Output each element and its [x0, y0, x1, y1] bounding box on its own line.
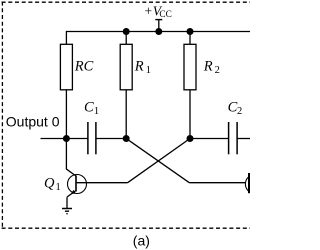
wire C1 to R1 node: [96, 138, 126, 140]
wire Q2 base lead horizontal: [189, 182, 245, 184]
svg-text:Output 0: Output 0: [6, 114, 60, 130]
svg-text:1: 1: [94, 106, 99, 117]
transistor Q2 (partially visible at edge): [245, 173, 264, 194]
wire RC top stub: [65, 31, 67, 44]
dashed figure border top: [2, 1, 250, 3]
svg-text:R: R: [203, 59, 213, 75]
svg-text:(a): (a): [133, 232, 150, 248]
svg-text:1: 1: [56, 182, 61, 193]
node rail-R2 junction: [187, 28, 194, 35]
resistor R1 value label: [134, 59, 151, 77]
dashed figure border left: [1, 2, 3, 229]
wire RC bottom: [65, 90, 67, 139]
wire VCC rail: [66, 31, 250, 33]
node rail-VCC junction: [155, 28, 162, 35]
node rail-R1 junction: [123, 28, 130, 35]
resistor R2: [184, 44, 196, 90]
transistor Q1: [67, 175, 87, 198]
svg-text:C: C: [84, 99, 94, 115]
dashed figure border bottom: [2, 227, 250, 229]
+VCC supply label: [144, 3, 172, 20]
resistor R2 value label: [203, 59, 220, 77]
wire output stub: [41, 138, 88, 140]
node R1 bottom junction: [123, 135, 130, 142]
wire VCC stub: [158, 20, 160, 32]
svg-text:R: R: [134, 59, 144, 75]
resistor RC: [60, 44, 72, 90]
wire R1 top stub: [125, 32, 127, 45]
+VCC supply terminal tick: [155, 19, 162, 21]
capacitor C1 label: [84, 99, 99, 117]
capacitor C1: [88, 122, 96, 154]
ground: [62, 209, 72, 214]
wire R2 node to C2: [190, 138, 229, 140]
transistor Q1 label: [44, 175, 61, 193]
svg-text:2: 2: [237, 106, 242, 117]
node R2 bottom junction: [187, 135, 194, 142]
svg-text:1: 1: [146, 65, 151, 76]
wire Q1 collector: [66, 139, 76, 177]
wire Q1 base lead horizontal: [76, 182, 128, 184]
svg-text:2: 2: [215, 65, 220, 76]
svg-text:Q: Q: [44, 175, 55, 191]
svg-text:RC: RC: [74, 59, 94, 75]
wire R2 top stub: [189, 32, 191, 45]
wire cross-couple R1 node to Q2 base (diagonal): [126, 139, 189, 183]
capacitor C2: [229, 122, 238, 154]
wire R2 bottom: [189, 90, 191, 139]
wire C2 to right edge: [237, 138, 250, 140]
wire cross-couple R2 node to Q1 base (diagonal): [128, 139, 190, 183]
wire R1 bottom: [125, 90, 127, 139]
capacitor C2 label: [228, 99, 243, 117]
wire Q1 emitter to ground: [66, 197, 68, 208]
node output junction (RC / Q1 collector): [63, 135, 70, 142]
resistor R1: [120, 44, 132, 90]
svg-text:CC: CC: [159, 10, 171, 20]
